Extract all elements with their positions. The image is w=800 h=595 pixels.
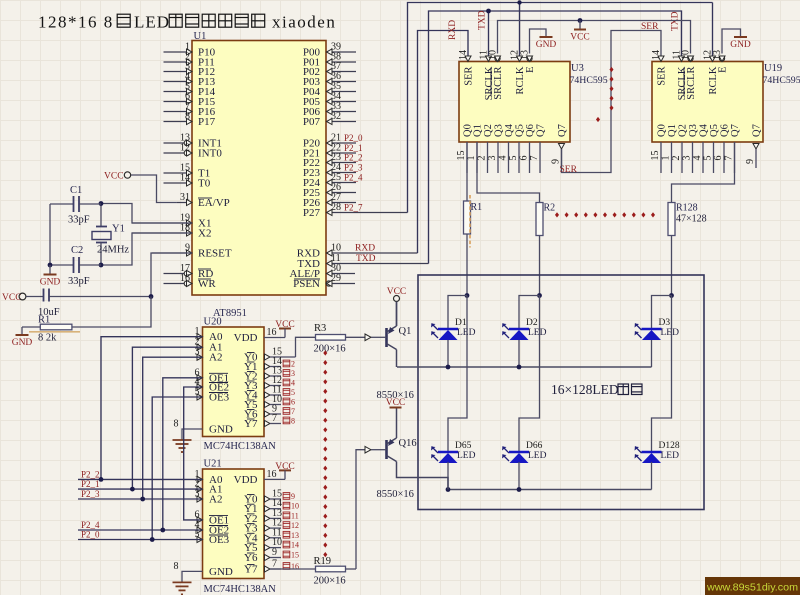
wire column continuation to D128 xyxy=(652,296,672,453)
LED D2 xyxy=(502,318,547,340)
svg-text:U19: U19 xyxy=(764,63,782,74)
svg-text:7: 7 xyxy=(272,413,277,424)
U21 pin 8 GND xyxy=(174,561,233,582)
svg-text:www.89s51diy.com: www.89s51diy.com xyxy=(706,582,798,594)
ground GND (U19 enable) xyxy=(730,37,751,50)
node TXD rail junction xyxy=(486,9,491,14)
U19 pin Q7 output xyxy=(724,124,742,173)
svg-text:A2: A2 xyxy=(209,494,222,506)
U1 pin 1 P10 xyxy=(164,42,216,59)
svg-text:2: 2 xyxy=(477,156,488,161)
node row2 D66 xyxy=(517,487,522,492)
svg-text:14: 14 xyxy=(291,541,299,550)
U1 pin 12 INT0 xyxy=(164,143,223,160)
power symbol VCC (reset circuit) xyxy=(2,293,26,303)
node A1 junction xyxy=(130,487,135,492)
svg-text:LED: LED xyxy=(661,328,680,338)
wire RCLK drop to U3 pin 12 xyxy=(519,3,521,62)
svg-text:VCC: VCC xyxy=(570,33,590,43)
wire C1-C2 left rail xyxy=(49,204,51,265)
ground GND (crystal caps) xyxy=(40,265,61,288)
U21 pin 5 OE3 xyxy=(195,529,230,546)
U1 pin 28 P27 xyxy=(303,202,408,219)
svg-text:RESET: RESET xyxy=(198,248,232,260)
svg-text:4: 4 xyxy=(291,379,295,388)
svg-text:Q7: Q7 xyxy=(557,124,568,137)
U21 pin 10 Y5 output xyxy=(244,537,299,554)
U1 pin 11 TXD xyxy=(297,253,428,270)
U1 pin 36 P03 xyxy=(303,71,356,88)
node crystal bottom junction xyxy=(99,263,104,268)
svg-text:C2: C2 xyxy=(71,245,83,256)
U19 pin Q5 output xyxy=(703,124,721,173)
svg-text:GND: GND xyxy=(40,278,61,288)
svg-text:9: 9 xyxy=(272,547,277,558)
svg-text:P2_0: P2_0 xyxy=(344,133,363,143)
svg-text:Y7: Y7 xyxy=(244,564,258,576)
U1 pin 9 RESET xyxy=(152,243,232,260)
U1 pin 14 T0 xyxy=(164,173,211,190)
svg-text:Q7: Q7 xyxy=(752,124,763,137)
U1 pin 34 P05 xyxy=(303,91,356,108)
svg-text:D2: D2 xyxy=(526,318,538,328)
svg-text:7: 7 xyxy=(291,407,295,416)
svg-text:9: 9 xyxy=(745,159,756,164)
svg-text:74HC595: 74HC595 xyxy=(570,75,608,86)
svg-text:LED: LED xyxy=(134,13,170,32)
U1 pin 35 P04 xyxy=(303,81,356,98)
svg-text:200×16: 200×16 xyxy=(314,344,346,355)
wire TXD drop to U3 pin 11 xyxy=(488,11,490,62)
svg-text:GND: GND xyxy=(209,424,233,436)
ground earth (U21) xyxy=(173,582,192,594)
svg-text:11: 11 xyxy=(291,511,299,520)
svg-text:TXD: TXD xyxy=(478,10,488,30)
wire U21 Y7 to R19 xyxy=(270,568,316,570)
svg-text:P2_1: P2_1 xyxy=(81,479,100,489)
svg-text:Q3: Q3 xyxy=(494,124,505,137)
U1 pin 8 P17 xyxy=(164,111,216,128)
svg-text:128*16 8: 128*16 8 xyxy=(38,13,114,32)
svg-text:9: 9 xyxy=(551,159,562,164)
svg-text:Q6: Q6 xyxy=(720,124,731,137)
U20 pin 14 Y1 output xyxy=(244,356,295,373)
svg-text:6: 6 xyxy=(713,156,724,161)
transistor Q1 8550 (row1 driver) xyxy=(377,302,414,402)
power symbol VCC (SRCLR rail) xyxy=(570,18,590,42)
U1 pin 18 X2 xyxy=(132,223,211,240)
svg-text:GND: GND xyxy=(730,40,751,50)
wire U3 Q7s to U19 SER (cascade) xyxy=(562,31,662,173)
wire net A2 (U20-U21) with label P2_3 xyxy=(78,357,203,499)
U1 pin 7 P16 xyxy=(164,101,216,118)
U3 pin Q6 output xyxy=(519,124,537,173)
svg-text:16×128LED: 16×128LED xyxy=(551,382,619,397)
svg-text:Q7: Q7 xyxy=(730,124,741,137)
node row1 D1 xyxy=(446,365,451,370)
svg-text:Q2: Q2 xyxy=(483,124,494,137)
U21 pin 6 OE1 xyxy=(195,509,230,526)
svg-text:32: 32 xyxy=(331,111,341,122)
svg-text:xiaoden: xiaoden xyxy=(272,13,336,32)
svg-text:C1: C1 xyxy=(70,185,82,196)
svg-text:3: 3 xyxy=(195,347,200,358)
U19 pin Q0 output xyxy=(650,124,668,173)
U21 pin 16 VDD xyxy=(234,469,285,486)
U19 pin Q6 output xyxy=(713,124,731,173)
svg-text:EA/VP: EA/VP xyxy=(198,197,230,209)
svg-text:4: 4 xyxy=(692,156,703,161)
svg-text:3: 3 xyxy=(487,156,498,161)
svg-text:P07: P07 xyxy=(303,116,321,128)
wire D1 anode to row1 rail xyxy=(447,340,449,367)
svg-text:P17: P17 xyxy=(198,116,216,128)
U3 pin 12 RCLK xyxy=(510,50,527,95)
watermark www.89s51diy.com xyxy=(705,577,800,595)
U1 pin 13 INT1 xyxy=(164,133,222,150)
svg-text:Q4: Q4 xyxy=(504,123,515,137)
svg-text:P2_4: P2_4 xyxy=(344,173,363,183)
node A2 junction xyxy=(140,497,145,502)
wire row1 anode rail xyxy=(397,366,652,368)
svg-text:47×128: 47×128 xyxy=(676,214,707,225)
svg-text:LED: LED xyxy=(457,451,476,461)
svg-text:15: 15 xyxy=(650,151,661,161)
svg-text:INT0: INT0 xyxy=(198,148,222,160)
svg-text:P2_2: P2_2 xyxy=(344,153,363,163)
wire net OE2-OE1 cross (U20 OE2 to U21 OE1) xyxy=(184,387,203,520)
resistor R19 200x16 xyxy=(314,446,387,586)
svg-text:D65: D65 xyxy=(455,441,472,451)
U1 pin 30 ALE/P xyxy=(289,263,355,280)
U20 pin 13 Y2 output xyxy=(244,366,295,383)
IC U21 MC74HC138AN body xyxy=(203,459,277,595)
U3 pin Q5 output xyxy=(508,124,526,173)
U3 pin 14 SER xyxy=(458,50,475,86)
U1 pin 38 P01 xyxy=(303,52,356,69)
svg-text:Q1: Q1 xyxy=(473,124,484,137)
svg-text:VDD: VDD xyxy=(234,474,258,486)
svg-text:U1: U1 xyxy=(194,31,207,42)
U19 pin 11 SRCLK xyxy=(672,50,689,100)
U1 pin 31 EA/VP xyxy=(177,192,230,209)
svg-text:OE3: OE3 xyxy=(209,534,230,546)
U1 pin 21 P20 xyxy=(303,133,363,150)
wire R1 to column node xyxy=(466,234,468,296)
node A0 junction xyxy=(99,477,104,482)
svg-text:14: 14 xyxy=(651,50,662,60)
svg-text:P2_3: P2_3 xyxy=(81,489,100,499)
U19 pin Q1 output xyxy=(661,124,679,173)
power symbol VCC (EA/VP pull-up) xyxy=(104,172,131,182)
U3 pin 13 E xyxy=(520,50,537,73)
U20 pin 16 VDD xyxy=(234,327,285,344)
wire column jog to D2 xyxy=(519,296,540,330)
wire net A0 (U20-U21) with label P2_2 xyxy=(78,337,203,480)
U1 pin 6 P15 xyxy=(164,91,216,108)
svg-text:5: 5 xyxy=(195,387,200,398)
svg-text:R2: R2 xyxy=(544,203,556,214)
IC U1 AT8951 body xyxy=(192,31,326,295)
svg-text:E: E xyxy=(525,67,536,73)
svg-text:5: 5 xyxy=(703,156,714,161)
svg-text:R128: R128 xyxy=(676,203,698,214)
svg-text:GND: GND xyxy=(209,566,233,578)
net label SER (near U19) xyxy=(641,22,659,32)
U3 pin Q0 output xyxy=(456,124,474,173)
U20 pin 5 OE3 xyxy=(195,387,230,404)
wire column jog to D1 xyxy=(448,296,467,330)
svg-text:9: 9 xyxy=(185,243,190,254)
U20 pin 9 Y6 output xyxy=(244,404,295,421)
svg-text:U3: U3 xyxy=(571,63,584,74)
svg-text:8550×16: 8550×16 xyxy=(377,489,414,500)
wire U19 E to GND xyxy=(722,29,741,54)
U21 pin 12 Y3 output xyxy=(244,518,299,535)
svg-text:D128: D128 xyxy=(659,441,680,451)
red dotted marks between R2 and R128 xyxy=(555,212,655,217)
U21 pin 9 Y6 output xyxy=(244,547,299,564)
svg-text:VCC: VCC xyxy=(2,293,22,303)
svg-text:12: 12 xyxy=(291,521,299,530)
svg-text:2: 2 xyxy=(671,156,682,161)
resistor R3 200x16 xyxy=(296,323,387,357)
U3 pin 9 Q7s xyxy=(551,124,569,168)
net label TXD (U3) xyxy=(478,10,488,30)
wire row2 anode rail xyxy=(448,489,652,491)
ground earth (U20) xyxy=(173,440,192,452)
LED D128 xyxy=(635,441,680,463)
U21 pin 15 Y0 output xyxy=(244,489,295,506)
svg-text:A2: A2 xyxy=(209,352,222,364)
svg-text:R1: R1 xyxy=(471,202,483,213)
U19 pin 14 SER xyxy=(651,50,668,86)
wire D66 anode to row2 rail xyxy=(518,462,520,490)
U1 pin 22 P21 xyxy=(303,143,363,160)
svg-text:SER: SER xyxy=(657,67,668,86)
svg-text:3: 3 xyxy=(195,489,200,500)
wire net OE1-OE2 cross (U20 OE1 to U21 OE2) label P2_4 xyxy=(78,378,203,530)
U19 pin Q3 output xyxy=(682,124,700,173)
node column D2 junction xyxy=(537,293,542,298)
svg-text:16: 16 xyxy=(291,562,299,571)
wire D2 anode to row1 rail xyxy=(518,340,520,367)
svg-text:LED: LED xyxy=(457,328,476,338)
svg-text:TXD: TXD xyxy=(356,254,376,264)
wire column continuation to D65 xyxy=(448,296,467,453)
svg-text:LED: LED xyxy=(528,328,547,338)
U21 pin 7 Y7 output xyxy=(244,559,299,576)
svg-text:1: 1 xyxy=(661,156,672,161)
U21 pin 14 Y1 output xyxy=(244,498,299,515)
svg-text:Q2: Q2 xyxy=(678,124,689,137)
transistor Q16 8550 (row2 driver) xyxy=(377,409,449,501)
svg-text:VDD: VDD xyxy=(234,332,258,344)
resistor R1 47ohm column xyxy=(464,201,483,234)
svg-text:E: E xyxy=(718,67,729,73)
svg-text:RXD: RXD xyxy=(448,20,458,40)
svg-text:Q1: Q1 xyxy=(667,124,678,137)
svg-text:SER: SER xyxy=(560,165,578,175)
U3 pin 10 SRCLR xyxy=(488,50,505,100)
node C2 gnd junction xyxy=(48,263,53,268)
svg-text:P27: P27 xyxy=(303,207,321,219)
svg-text:1: 1 xyxy=(195,326,200,337)
U1 pin 37 P02 xyxy=(303,61,356,78)
svg-text:GND: GND xyxy=(12,338,33,348)
svg-text:13: 13 xyxy=(291,531,299,540)
svg-text:5: 5 xyxy=(508,156,519,161)
svg-text:8: 8 xyxy=(174,419,179,430)
svg-text:Q7: Q7 xyxy=(536,124,547,137)
svg-text:T0: T0 xyxy=(198,178,211,190)
label AT8951 xyxy=(213,308,247,319)
U1 pin 2 P11 xyxy=(164,52,215,69)
U19 pin Q2 output xyxy=(671,124,689,173)
svg-text:R19: R19 xyxy=(314,556,332,567)
svg-text:SRCLR: SRCLR xyxy=(686,67,697,100)
wire VCC to EA/VP xyxy=(131,175,177,203)
U20 pin 12 Y3 output xyxy=(244,375,295,392)
U21 pin 2 A1 xyxy=(195,479,223,496)
svg-text:Q6: Q6 xyxy=(525,124,536,137)
svg-text:Q0: Q0 xyxy=(657,124,668,137)
capacitor C1 33pF xyxy=(50,185,101,226)
wire column jog to D3 xyxy=(652,296,672,330)
tan dashed overlay on R1 xyxy=(469,195,471,248)
wire net TXD rail to SRCLK pins xyxy=(429,11,682,264)
svg-text:74HC595: 74HC595 xyxy=(763,75,800,86)
U3 pin Q3 output xyxy=(487,124,505,173)
IC U3 74HC595 body xyxy=(459,62,608,143)
wire net P27 to RCLK rail xyxy=(408,3,713,213)
wire reset junction to RESET pin xyxy=(151,253,192,297)
svg-text:3: 3 xyxy=(682,156,693,161)
wire R128 to column node xyxy=(671,236,673,296)
svg-text:P2_7: P2_7 xyxy=(344,203,363,213)
U1 pin 19 X1 xyxy=(132,213,211,230)
svg-text:OE3: OE3 xyxy=(209,392,230,404)
svg-text:14: 14 xyxy=(458,50,469,60)
U1 pin 27 P26 xyxy=(303,192,356,209)
svg-text:RXD: RXD xyxy=(355,244,375,254)
node RCLK rail junction xyxy=(517,0,521,4)
capacitor C2 33pF xyxy=(50,245,101,287)
svg-text:33pF: 33pF xyxy=(68,276,90,287)
svg-text:Q5: Q5 xyxy=(515,124,526,137)
svg-text:13: 13 xyxy=(712,50,723,60)
U20 pin 3 A2 xyxy=(195,347,223,364)
U1 pin 23 P22 xyxy=(303,152,363,169)
svg-text:R1: R1 xyxy=(38,315,50,326)
U19 pin 10 SRCLR xyxy=(681,50,698,100)
U20 pin 11 Y4 output xyxy=(244,385,295,402)
wire net A1 (U20-U21) with label P2_1 xyxy=(78,347,203,489)
U21 pin 11 Y4 output xyxy=(244,527,299,544)
node reset junction xyxy=(149,294,154,299)
svg-text:8: 8 xyxy=(185,111,190,122)
red dotted marks between U3 and U19 xyxy=(596,67,614,122)
svg-text:10: 10 xyxy=(488,50,499,60)
tan underline under R1 xyxy=(29,331,80,333)
node column D3 junction xyxy=(669,293,674,298)
svg-text:Q1: Q1 xyxy=(399,326,412,337)
U1 pin 39 P00 xyxy=(303,42,356,59)
svg-text:5: 5 xyxy=(291,388,295,397)
svg-text:Q5: Q5 xyxy=(709,124,720,137)
wire D128 anode to row2 rail xyxy=(651,462,653,490)
svg-text:AT8951: AT8951 xyxy=(213,308,247,319)
U21 pin 3 A2 xyxy=(195,489,223,506)
svg-text:13: 13 xyxy=(520,50,531,60)
svg-text:LED: LED xyxy=(528,451,547,461)
power symbol VCC (U20) xyxy=(275,320,295,338)
U20 pin 4 OE2 xyxy=(195,377,230,394)
U20 pin 1 A0 xyxy=(195,326,223,343)
svg-text:7: 7 xyxy=(724,156,735,161)
svg-text:D66: D66 xyxy=(526,441,543,451)
U19 pin Q4 output xyxy=(692,123,710,173)
node row2 D65 xyxy=(446,487,451,492)
svg-text:P2_0: P2_0 xyxy=(81,530,100,540)
U3 pin Q2 output xyxy=(477,124,495,173)
svg-text:WR: WR xyxy=(198,278,216,290)
net label SER (near U3 pin9) xyxy=(560,165,578,175)
svg-text:X2: X2 xyxy=(198,228,211,240)
U1 pin 4 P13 xyxy=(164,71,216,88)
capacitor C3 10uF xyxy=(26,289,151,319)
svg-text:8: 8 xyxy=(291,417,295,426)
svg-text:24MHz: 24MHz xyxy=(97,245,129,256)
wire X2 to crystal bottom xyxy=(101,233,192,265)
wire U19 Q7 to R128 xyxy=(672,142,735,203)
U1 pin 26 P25 xyxy=(303,182,356,199)
svg-text:P2_3: P2_3 xyxy=(344,163,363,173)
node OE3 junction xyxy=(150,537,155,542)
U19 pin 13 E xyxy=(712,50,729,73)
wire U3 Q1 to R2 xyxy=(477,142,540,203)
svg-text:SER: SER xyxy=(641,22,659,32)
U21 pin 13 Y2 output xyxy=(244,508,299,525)
net label RXD (vertical) xyxy=(448,20,458,40)
power symbol VCC (Q16) xyxy=(386,398,406,408)
svg-text:2: 2 xyxy=(291,360,295,369)
svg-text:P2_1: P2_1 xyxy=(344,143,363,153)
svg-text:16: 16 xyxy=(180,273,190,284)
svg-text:P2_2: P2_2 xyxy=(81,470,100,480)
svg-text:R3: R3 xyxy=(314,323,326,334)
svg-text:U21: U21 xyxy=(204,459,222,470)
U1 pin 29 PSEN xyxy=(293,273,355,290)
svg-text:SRCLR: SRCLR xyxy=(493,67,504,100)
U1 pin 10 RXD xyxy=(297,243,418,260)
U1 pin 24 P23 xyxy=(303,162,363,179)
svg-text:28: 28 xyxy=(331,202,341,213)
U19 pin 12 RCLK xyxy=(703,50,720,95)
LED D65 xyxy=(431,441,476,463)
svg-text:D1: D1 xyxy=(455,318,467,328)
IC U20 MC74HC138AN body xyxy=(203,317,277,453)
red dotted marks between R3 and R19 xyxy=(323,350,327,557)
U1 pin 32 P07 xyxy=(303,111,356,128)
resistor R2 column xyxy=(536,203,555,236)
U21 pin 4 OE2 xyxy=(195,520,230,537)
svg-text:15: 15 xyxy=(291,551,299,560)
svg-text:PSEN: PSEN xyxy=(293,278,320,290)
svg-text:14: 14 xyxy=(180,173,190,184)
svg-text:MC74HC138AN: MC74HC138AN xyxy=(204,584,277,595)
svg-text:6: 6 xyxy=(291,398,295,407)
